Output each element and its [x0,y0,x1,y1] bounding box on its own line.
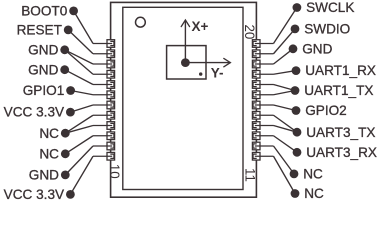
pin 5 (left row 5) [107,81,115,89]
wire NC to left pin 8 [65,115,93,133]
svg-text:VCC 3.3V: VCC 3.3V [4,187,64,202]
node GPIO1 (left) [23,83,75,98]
wire UART3_RX to right pin 15 [274,136,298,153]
node UART3_TX (right) [293,125,376,140]
wire stub right pin 13 [255,43,274,45]
pin 6 (left row 6) [107,91,115,99]
wire stub right pin 15 [255,63,274,65]
node BOOT0 (left) [21,4,78,19]
wire GND to right pin 22 [274,49,294,64]
wire NC to left pin 10 [65,136,93,154]
pin 7 (left row 7) [107,101,115,109]
wire SWCLK to right pin 24 [274,8,297,44]
svg-text:10: 10 [107,164,122,179]
pin 22 (right row 3) [252,132,260,140]
svg-text:GPIO2: GPIO2 [305,103,347,118]
wire stub right pin 17 [255,84,274,86]
wire stub left pin 5 [93,84,112,86]
node SWDIO (right) [291,22,351,37]
wire stub right pin 14 [255,53,274,55]
svg-text:UART1_RX: UART1_RX [305,63,376,78]
pin 10 (left row 10) [107,132,115,140]
node NC (left) [39,126,69,141]
svg-text:GND: GND [28,62,58,77]
wire VCC 3.3V to left pin 12 [70,156,93,194]
wire SWDIO to right pin 23 [274,29,296,54]
Y- axis arrow [185,58,230,66]
wire BOOT0 to left pin 1 [74,11,93,44]
wire RESET to left pin 2 [68,30,93,54]
wire NC share to left pin 9 [65,126,93,134]
svg-text:VCC 3.3V: VCC 3.3V [4,105,64,120]
wire stub right pin 19 [255,104,274,106]
wire stub right pin 16 [255,73,274,75]
svg-text:SWDIO: SWDIO [304,22,350,37]
pin 14 (right row 11) [252,50,260,58]
wire stub left pin 4 [93,73,112,75]
wire GND to left pin 3 [65,50,93,64]
node UART3_RX (right) [293,145,377,160]
node RESET (left) [17,23,73,38]
wire GND to left pin 5 [65,70,93,85]
pin 16 (right row 9) [252,70,260,78]
wire UART3_TX share to right pin 9 [274,126,298,133]
svg-text:GND: GND [29,168,59,183]
node VCC 3.3V (left) [4,105,75,120]
wire GND share to left pin 4 [65,50,93,74]
svg-text:Y-: Y- [211,66,224,81]
module inner board outline [123,7,243,189]
wire stub right pin 22 [255,135,274,137]
chip origin dot [181,58,190,67]
X+ axis label [192,19,209,34]
wire stub left pin 2 [93,53,112,55]
node UART1_TX (right) [291,83,374,98]
svg-text:UART3_TX: UART3_TX [306,125,375,140]
pin number 11 marker [243,168,258,182]
wire stub left pin 1 [93,43,112,45]
node NC (left) [39,146,69,161]
wire stub left pin 7 [93,104,112,106]
pin 18 (right row 7) [252,91,260,99]
pin 20 (right row 5) [252,111,260,119]
pin 1 marker circle [136,17,146,27]
wire stub left pin 3 [93,63,112,65]
pin 17 (right row 8) [252,81,260,89]
wire stub left pin 11 [93,145,112,147]
svg-text:UART1_TX: UART1_TX [304,83,373,98]
svg-text:NC: NC [39,146,59,161]
node GND (left) [29,168,70,183]
pin number 10 marker [107,164,122,179]
svg-text:NC: NC [304,186,324,201]
wire NC to right pin 14 [274,146,295,174]
wire stub left pin 9 [93,125,112,127]
svg-text:RESET: RESET [17,23,62,38]
svg-text:11: 11 [243,168,258,182]
X+ axis arrow [181,20,189,63]
pin 9 (left row 9) [107,122,115,130]
wire stub right pin 23 [255,145,274,147]
wire stub left pin 10 [93,135,112,137]
node GPIO2 (right) [292,103,347,118]
pin 23 (right row 2) [252,142,260,150]
svg-text:NC: NC [39,126,59,141]
wire stub left pin 6 [93,94,112,96]
node GND (left) [28,42,69,57]
svg-text:UART3_RX: UART3_RX [306,145,377,160]
wire GND to left pin 11 [65,146,93,175]
wire stub right pin 24 [255,155,274,157]
wire UART1_TX to right pin 20 [274,85,296,91]
wire stub right pin 21 [255,125,274,127]
chip corner reference dot [199,72,202,75]
svg-text:GND: GND [302,41,332,56]
pin 3 (left row 3) [107,60,115,68]
pin 4 (left row 4) [107,70,115,78]
pin number 20 marker [242,24,257,39]
module body outline [111,2,257,197]
svg-text:GPIO1: GPIO1 [23,83,65,98]
svg-text:NC: NC [303,167,323,182]
wire UART1_TX share to right pin 6 [274,91,296,95]
pin 21 (right row 4) [252,122,260,130]
node UART1_RX (right) [292,63,376,78]
pin 12 (left row 12) [107,152,115,160]
svg-text:SWCLK: SWCLK [306,0,354,15]
pin 15 (right row 10) [252,60,260,68]
wire stub left pin 12 [93,155,112,157]
pin 2 (left row 2) [107,50,115,58]
node NC (right) [291,186,324,201]
svg-text:GND: GND [28,42,58,57]
node VCC 3.3V (left) [4,187,75,202]
wire UART3_TX to right pin 17 [274,115,298,132]
wire GPIO1 to left pin 6 [71,91,93,95]
wire VCC 3.3V to left pin 7 [70,105,93,112]
pin 8 (left row 8) [107,111,115,119]
Y- axis label [211,66,224,81]
wire UART1_RX to right pin 21 [274,71,297,75]
pin 11 (left row 11) [107,142,115,150]
pin 24 (right row 1) [252,152,260,160]
wire NC to right pin 13 [274,156,296,193]
svg-text:X+: X+ [192,19,209,34]
IMU chip symbol box [167,46,206,79]
node NC (right) [290,167,323,182]
svg-text:BOOT0: BOOT0 [21,4,68,19]
pin 13 (right row 12) [252,40,260,48]
wire stub right pin 18 [255,94,274,96]
pin 19 (right row 6) [252,101,260,109]
wire stub left pin 8 [93,114,112,116]
node GND (right) [289,41,333,56]
node GND (left) [28,62,69,77]
node SWCLK (right) [293,0,355,15]
pin 1 (left row 1) [107,40,115,48]
svg-text:20: 20 [242,24,257,39]
wire GPIO2 to right pin 18 [274,105,297,111]
wire stub right pin 20 [255,114,274,116]
